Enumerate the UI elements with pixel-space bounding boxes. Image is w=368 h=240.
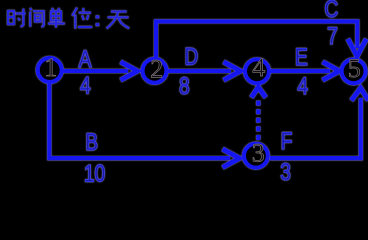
arrowhead F xyxy=(351,88,368,101)
svg-text:F: F xyxy=(281,127,293,155)
svg-text:4: 4 xyxy=(297,72,308,100)
svg-text:4: 4 xyxy=(252,53,265,82)
svg-text:1: 1 xyxy=(44,53,57,82)
单 xyxy=(48,8,65,28)
位 xyxy=(72,8,92,29)
svg-text:10: 10 xyxy=(84,159,105,186)
时 xyxy=(8,9,26,27)
arrowhead C xyxy=(348,39,367,56)
arrowhead B xyxy=(223,149,240,167)
edge F wire 3->5 xyxy=(270,98,361,158)
svg-text:B: B xyxy=(85,128,98,156)
svg-text:2: 2 xyxy=(150,55,163,84)
node 3 xyxy=(244,139,268,168)
edge A wire 1->2 xyxy=(63,69,128,73)
title 时间单位：天 xyxy=(8,8,129,29)
node 1 xyxy=(38,53,62,82)
arrowhead E xyxy=(323,62,340,80)
svg-text:7: 7 xyxy=(327,22,338,50)
node 5 xyxy=(342,54,366,84)
node 4 xyxy=(245,53,269,83)
svg-text:A: A xyxy=(79,45,92,73)
node 2 xyxy=(143,55,167,84)
dashed dummy arrow 3->4 xyxy=(256,99,260,140)
arrowhead D xyxy=(224,62,241,80)
间 xyxy=(30,8,44,27)
： xyxy=(96,15,100,26)
edge C wire 2->5 over the top xyxy=(156,21,357,58)
edge E wire 4->5 xyxy=(271,69,330,73)
svg-text:4: 4 xyxy=(80,71,91,99)
edge B wire 1->3 bottom xyxy=(49,84,230,158)
svg-text:D: D xyxy=(184,42,198,70)
arrowhead dashed xyxy=(251,87,265,98)
arrowhead A xyxy=(121,62,138,80)
edge D wire 2->4 xyxy=(168,69,231,73)
svg-text:C: C xyxy=(324,0,338,23)
svg-text:8: 8 xyxy=(179,72,190,100)
svg-text:3: 3 xyxy=(252,139,265,168)
svg-text:3: 3 xyxy=(280,158,291,186)
天 xyxy=(107,12,130,29)
svg-text:5: 5 xyxy=(348,54,361,83)
svg-text:E: E xyxy=(295,43,308,71)
